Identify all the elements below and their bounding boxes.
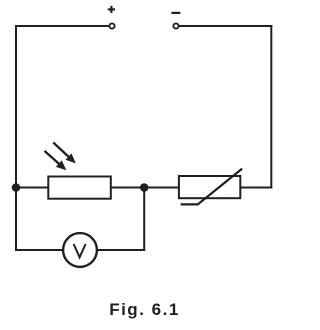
- svg-text:Fig. 6.1: Fig. 6.1: [109, 300, 180, 319]
